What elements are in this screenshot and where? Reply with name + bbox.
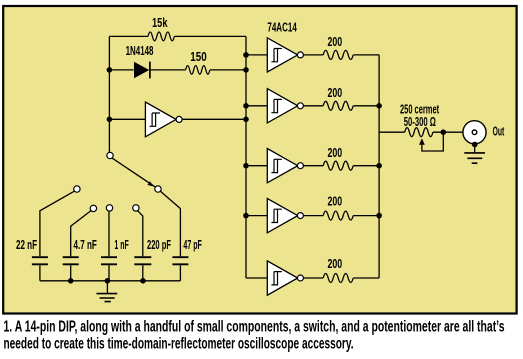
svg-text:15k: 15k (152, 15, 168, 30)
svg-text:50-300 Ω: 50-300 Ω (404, 114, 436, 129)
svg-text:200: 200 (328, 34, 343, 49)
svg-text:4.7 nF: 4.7 nF (74, 237, 97, 252)
svg-text:1N4148: 1N4148 (126, 43, 154, 58)
svg-text:needed to create this time-dom: needed to create this time-domain-reflec… (4, 335, 354, 352)
svg-text:1. A 14-pin DIP, along with a: 1. A 14-pin DIP, along with a handful of… (4, 319, 505, 336)
svg-text:74AC14: 74AC14 (267, 19, 297, 34)
svg-text:200: 200 (328, 85, 343, 100)
svg-text:200: 200 (328, 194, 343, 209)
svg-text:150: 150 (190, 49, 206, 64)
svg-text:47 pF: 47 pF (183, 237, 202, 252)
svg-text:200: 200 (328, 145, 343, 160)
svg-text:22 nF: 22 nF (16, 237, 37, 252)
svg-text:220 pF: 220 pF (147, 237, 171, 252)
svg-text:200: 200 (328, 256, 343, 271)
svg-text:1 nF: 1 nF (114, 237, 128, 252)
svg-text:Out: Out (493, 123, 505, 138)
